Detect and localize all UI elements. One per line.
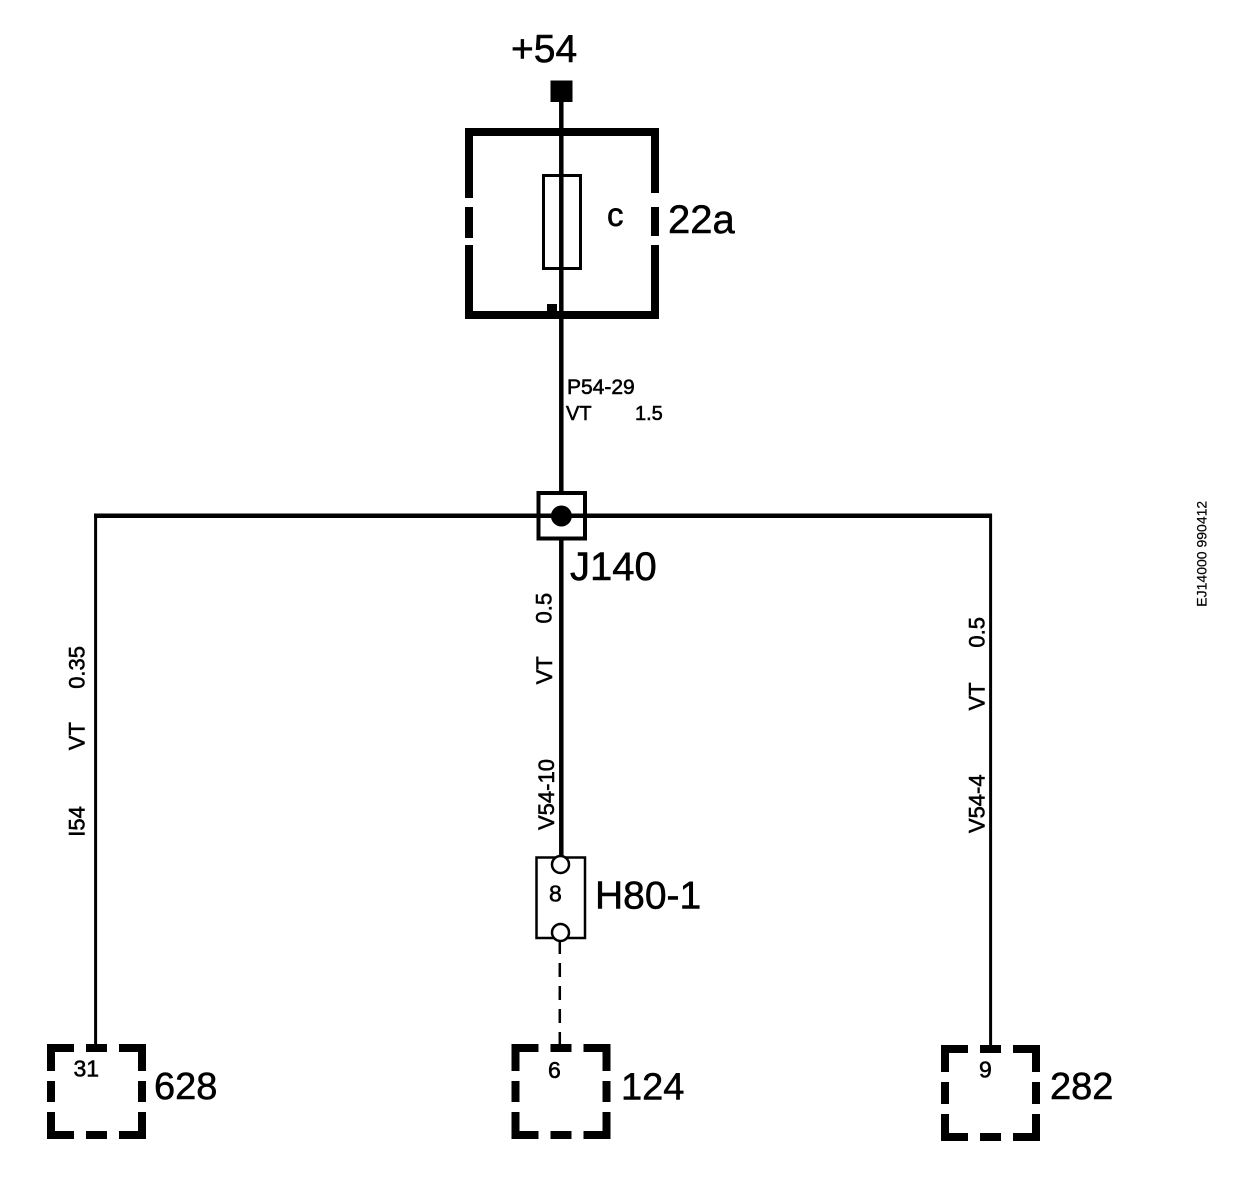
terminal square +54: [551, 81, 573, 103]
svg-text:22a: 22a: [668, 198, 735, 242]
svg-text:0.5: 0.5: [532, 593, 557, 624]
wire terminal to fuse box 22a: [559, 102, 564, 130]
svg-text:282: 282: [1050, 1066, 1113, 1108]
svg-text:I54: I54: [64, 806, 89, 837]
svg-text:V54-10: V54-10: [534, 759, 559, 830]
svg-text:124: 124: [621, 1067, 684, 1109]
wire through fuse box: [559, 130, 564, 493]
component box 124 (dashed): [516, 1048, 607, 1135]
dashed wire H80-1 to 124: [559, 940, 562, 1045]
svg-text:V54-4: V54-4: [965, 774, 990, 833]
svg-text:0.35: 0.35: [64, 646, 89, 689]
svg-text:8: 8: [549, 881, 562, 907]
svg-text:VT: VT: [64, 722, 89, 750]
svg-text:P54-29: P54-29: [567, 376, 635, 399]
wire left branch vertical: [94, 514, 97, 1045]
connector H80-1 box: [537, 858, 586, 939]
horizontal bus wire: [94, 513, 992, 518]
connector H80-1 top pin circle: [552, 856, 569, 873]
svg-text:H80-1: H80-1: [595, 875, 701, 918]
scan nub on 22a bottom border: [547, 304, 557, 312]
svg-text:EJ14000 990412: EJ14000 990412: [1194, 501, 1210, 607]
component box 628 (dashed): [51, 1048, 142, 1135]
svg-text:VT: VT: [532, 656, 557, 684]
svg-text:J140: J140: [570, 545, 657, 589]
wire right branch vertical: [989, 514, 992, 1046]
fuse symbol c: [544, 176, 581, 269]
svg-text:VT: VT: [566, 403, 592, 425]
component box 22a (dashed border): [465, 128, 659, 319]
junction J140 square: [539, 493, 586, 539]
svg-text:0.5: 0.5: [965, 617, 990, 648]
junction J140 dot: [551, 506, 572, 527]
svg-text:c: c: [607, 196, 624, 233]
svg-text:VT: VT: [965, 682, 990, 710]
svg-text:+54: +54: [511, 28, 577, 71]
svg-text:6: 6: [548, 1057, 561, 1083]
svg-text:1.5: 1.5: [635, 403, 663, 425]
connector H80-1 bottom pin circle: [552, 924, 569, 941]
svg-text:9: 9: [979, 1057, 992, 1083]
wire middle branch junction to H80-1: [559, 538, 564, 857]
component box 282 (dashed): [945, 1049, 1036, 1137]
svg-text:31: 31: [74, 1056, 100, 1082]
svg-text:628: 628: [154, 1066, 217, 1108]
